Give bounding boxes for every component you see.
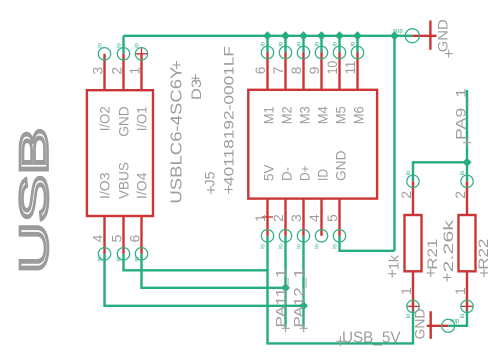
svg-text:io: io (406, 170, 412, 175)
pin circles D3 bottom (98, 248, 147, 260)
svg-text:R21: R21 (424, 238, 440, 269)
svg-text:io: io (134, 42, 140, 47)
svg-text:io: io (278, 41, 284, 46)
svg-text:5: 5 (324, 214, 340, 222)
svg-text:io: io (296, 243, 302, 248)
wire node PA11_1 stub (284, 236, 286, 328)
wire M4 riser (320, 36, 322, 53)
svg-text:PA11_1: PA11_1 (273, 268, 289, 327)
svg-text:sup: sup (393, 29, 403, 35)
pin J5.9 (320, 53, 322, 90)
origin cross of D3 name text (192, 74, 200, 82)
svg-text:5: 5 (108, 235, 124, 243)
svg-text:1: 1 (398, 287, 414, 295)
origin cross of GND top label (445, 50, 453, 58)
svg-text:D+: D+ (296, 166, 312, 182)
pin J5.3 (302, 199, 304, 236)
pin J5.5 (338, 199, 340, 236)
origin cross of J5 name text (207, 186, 215, 194)
svg-text:io: io (116, 256, 122, 261)
svg-text:I/O3: I/O3 (97, 172, 113, 199)
junction D- net (281, 283, 290, 292)
svg-text:3: 3 (288, 214, 304, 222)
ground symbol top (412, 21, 436, 50)
pin D3.1 (140, 54, 142, 90)
wire M6 riser (356, 36, 358, 53)
IC D3 box (87, 90, 153, 216)
wire M5 riser (338, 36, 340, 53)
svg-text:I/O2: I/O2 (97, 106, 113, 131)
origin cross D3 (136, 48, 147, 59)
origin cross of PA11_1 (282, 324, 290, 332)
wire D3 pin6 to J5 pin2 net (142, 254, 286, 288)
svg-text:40118192-0001LF: 40118192-0001LF (221, 46, 237, 186)
svg-text:4: 4 (89, 235, 105, 243)
svg-text:D-: D- (278, 167, 294, 181)
pin J5.7 (284, 53, 286, 90)
svg-text:io: io (460, 313, 466, 318)
svg-text:8: 8 (288, 66, 304, 74)
svg-text:2.26k: 2.26k (440, 218, 456, 272)
svg-text:GND: GND (116, 106, 132, 137)
origin cross of R21 name (427, 269, 435, 277)
svg-text:ID: ID (314, 169, 330, 181)
wire D3 pin5 to J5 pin1 net (124, 254, 268, 270)
junction GND riser (390, 31, 399, 40)
wire USB_5V bus J5 pin1 to R21 pin1 (268, 236, 414, 344)
svg-text:2: 2 (270, 214, 286, 222)
wire D3 pin4 to J5 pin3 net (105, 254, 304, 306)
pin R21.1 (412, 271, 414, 306)
junction M5 (335, 31, 344, 40)
pin J5.11 (356, 53, 358, 90)
origin cross J5 (262, 212, 273, 223)
svg-text:2: 2 (398, 191, 414, 199)
junction PA9 net (463, 158, 472, 167)
svg-text:R22: R22 (475, 238, 491, 269)
origin cross of USBLC6 value text (173, 61, 181, 69)
pin circles J5 top (261, 46, 363, 58)
wire GND vertical from bus to J5 pin5 wire (393, 36, 395, 251)
wire M1 riser (266, 36, 268, 53)
pin R22.1 (466, 271, 468, 306)
svg-text:sup: sup (450, 318, 460, 324)
svg-text:io: io (296, 41, 302, 46)
svg-text:M2: M2 (278, 106, 294, 124)
svg-text:io: io (134, 256, 140, 261)
wire top GND bus (124, 35, 413, 37)
svg-text:io: io (97, 42, 103, 47)
wire R21 pin2 to PA9 net (413, 162, 467, 181)
svg-text:io: io (97, 256, 103, 261)
svg-text:GND: GND (332, 151, 348, 182)
pin J5.1 (266, 199, 268, 236)
junction M6 (353, 31, 362, 40)
wire node PA9_1 stub to R22 pin2 (466, 90, 468, 181)
svg-text:io: io (260, 41, 266, 46)
resistor R21 body (405, 215, 422, 271)
wire J5 pin5 to GND vertical (340, 236, 395, 251)
origin cross R21 (408, 301, 419, 312)
svg-text:io: io (314, 243, 320, 248)
pin D3.4 (103, 216, 105, 254)
svg-text:1: 1 (126, 67, 142, 75)
resistor R22 body (459, 215, 476, 271)
pin circles GND symbols (405, 29, 454, 333)
svg-text:io: io (406, 313, 412, 318)
svg-text:I/O4: I/O4 (134, 172, 150, 199)
svg-text:io: io (260, 243, 266, 248)
svg-text:4: 4 (306, 214, 322, 222)
pin circles D3 top (98, 48, 147, 60)
ground symbol bottom (427, 311, 448, 339)
svg-text:M4: M4 (314, 106, 330, 124)
pin R22.2 (466, 181, 468, 215)
origin cross of R22 name (480, 269, 488, 277)
svg-text:7: 7 (270, 66, 286, 74)
pin D3.3 (103, 54, 105, 90)
origin cross of USB_5V (336, 336, 344, 346)
svg-text:11: 11 (342, 61, 358, 75)
svg-text:J5: J5 (201, 171, 217, 186)
wire GND symbol to R22 pin1 (448, 306, 467, 325)
junction M1 (263, 31, 272, 40)
pin J5.8 (302, 53, 304, 90)
svg-text:2: 2 (108, 67, 124, 75)
origin cross R22 (462, 301, 473, 312)
svg-text:VBUS: VBUS (116, 162, 132, 199)
svg-text:io: io (460, 170, 466, 175)
svg-text:1k: 1k (386, 254, 402, 270)
pin D3.6 (140, 216, 142, 254)
svg-text:M3: M3 (296, 106, 312, 124)
wire node PA12_1 stub (302, 236, 304, 328)
svg-text:GND: GND (412, 309, 428, 340)
origin cross of PA9_1 (463, 139, 471, 147)
svg-text:10: 10 (324, 61, 340, 75)
svg-text:1: 1 (252, 214, 268, 222)
pin circles R21 R22 (407, 175, 473, 312)
svg-text:USBLC6-4SC6Y: USBLC6-4SC6Y (169, 66, 186, 203)
svg-text:io: io (332, 243, 338, 248)
svg-text:io: io (116, 42, 122, 47)
svg-text:io: io (314, 41, 320, 46)
pin J5.2 (284, 199, 286, 236)
pin D3.2 (122, 54, 124, 90)
svg-text:6: 6 (126, 235, 142, 243)
svg-text:M1: M1 (260, 106, 276, 124)
pin R21.2 (412, 181, 414, 215)
svg-text:io: io (350, 41, 356, 46)
pin J5.6 (266, 53, 268, 90)
svg-text:USB_5V: USB_5V (342, 330, 401, 347)
svg-text:USB: USB (13, 128, 57, 274)
svg-text:io: io (278, 243, 284, 248)
svg-text:GND: GND (434, 19, 450, 52)
origin cross of R22 value (443, 274, 451, 282)
svg-text:3: 3 (89, 67, 105, 75)
svg-text:1: 1 (452, 287, 468, 295)
junction M3 (299, 31, 308, 40)
svg-text:2: 2 (452, 191, 468, 199)
pin J5.10 (338, 53, 340, 90)
pin J5.4 (320, 199, 322, 236)
svg-text:5V: 5V (260, 164, 276, 181)
wire M2 riser (284, 36, 286, 53)
origin cross of PA12_1 (300, 324, 308, 332)
svg-text:M6: M6 (350, 106, 366, 124)
svg-text:PA9_1: PA9_1 (452, 88, 468, 140)
svg-text:6: 6 (252, 66, 268, 74)
pin D3.5 (122, 216, 124, 254)
origin cross of J5 value text (225, 186, 233, 194)
origin cross of R21 value (388, 270, 396, 278)
wire M3 riser (302, 36, 304, 53)
junction M2 (281, 31, 290, 40)
svg-text:M5: M5 (332, 106, 348, 124)
svg-text:io: io (332, 41, 338, 46)
svg-text:9: 9 (306, 66, 322, 74)
wire GND riser from D3 pin 2 (122, 36, 124, 54)
junction M4 (317, 31, 326, 40)
connector J5 box (248, 90, 377, 199)
pin circles J5 bottom (261, 230, 345, 242)
svg-text:I/O1: I/O1 (134, 106, 150, 131)
svg-text:PA12_1: PA12_1 (291, 268, 307, 327)
junction D+ net (299, 301, 308, 310)
